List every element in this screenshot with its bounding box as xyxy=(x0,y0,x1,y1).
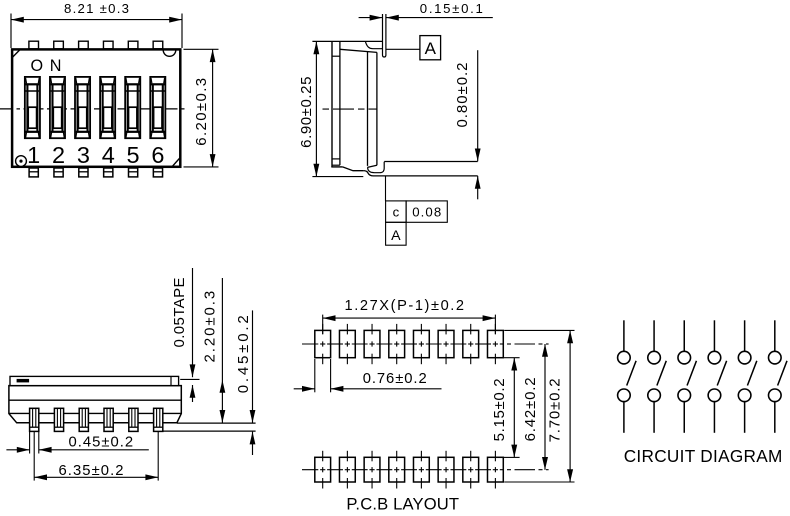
svg-text:0.08: 0.08 xyxy=(412,204,441,219)
svg-text:2: 2 xyxy=(52,142,65,168)
svg-text:5.15±0.2: 5.15±0.2 xyxy=(491,378,508,441)
svg-text:CIRCUIT DIAGRAM: CIRCUIT DIAGRAM xyxy=(624,446,783,466)
svg-text:8.21 ±0.3: 8.21 ±0.3 xyxy=(64,1,129,16)
svg-text:1.27X(P-1)±0.2: 1.27X(P-1)±0.2 xyxy=(345,298,465,314)
svg-text:3: 3 xyxy=(77,142,90,168)
svg-text:4: 4 xyxy=(102,142,115,168)
svg-text:6.20±0.3: 6.20±0.3 xyxy=(193,78,210,146)
svg-text:A: A xyxy=(391,228,401,244)
svg-text:6: 6 xyxy=(151,142,164,168)
svg-text:6.35±0.2: 6.35±0.2 xyxy=(59,463,124,479)
svg-text:6.90±0.25: 6.90±0.25 xyxy=(298,77,315,148)
svg-text:0.45±0.2: 0.45±0.2 xyxy=(69,435,134,451)
svg-text:0.15±0.1: 0.15±0.1 xyxy=(420,1,483,16)
svg-text:0.05TAPE: 0.05TAPE xyxy=(171,278,188,348)
svg-text:7.70±0.2: 7.70±0.2 xyxy=(547,378,564,442)
svg-text:A: A xyxy=(425,39,437,58)
svg-text:0.80±0.2: 0.80±0.2 xyxy=(454,63,471,128)
svg-text:0.76±0.2: 0.76±0.2 xyxy=(363,371,427,387)
svg-text:1: 1 xyxy=(27,142,40,168)
svg-text:5: 5 xyxy=(127,142,140,168)
svg-text:c: c xyxy=(393,204,400,219)
svg-text:P.C.B LAYOUT: P.C.B LAYOUT xyxy=(346,495,459,514)
svg-text:6.42±0.2: 6.42±0.2 xyxy=(522,377,539,441)
